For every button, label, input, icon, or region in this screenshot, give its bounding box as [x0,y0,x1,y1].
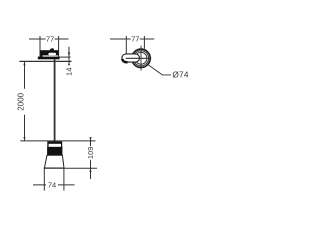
svg-text:Ø74: Ø74 [172,70,188,80]
head neck inner white [49,144,61,147]
svg-text:77: 77 [131,35,139,44]
extension right of 74 [63,168,65,190]
head neck (outlined) [47,141,62,147]
dimension line 14 [68,47,70,64]
tick/extension right of 77 (top view) [143,36,145,49]
ceiling mount fixture (side view) [38,48,60,59]
head cone [44,155,64,168]
head black band [47,147,62,155]
top view: capsule thick lower-left edge [122,59,127,62]
svg-text:77: 77 [46,35,54,44]
arrowhead 109 bottom (points up) [89,168,91,172]
arrowhead 2000 top (points up) [23,62,25,66]
top view: outer circle [132,49,150,67]
svg-text:14: 14 [64,68,73,76]
svg-text:2000: 2000 [16,92,25,110]
svg-text:74: 74 [48,180,56,189]
extension left of 74 [43,168,45,190]
top view: inner circle [135,52,147,64]
bottom reference line (cone bottom) [44,167,97,169]
arrowhead 109 top (points down) [89,137,91,141]
arrowhead 14 upper (points down) [68,53,70,57]
top view: bracket capsule [122,54,140,62]
tick/extension left of 77 (top view) [125,36,127,54]
top reference line at head [20,140,95,142]
svg-text:109: 109 [86,147,95,160]
fixture bottom bar [38,57,60,60]
ceiling line [19,60,71,62]
dimension line 74 [33,184,75,186]
fixture body left foot [40,55,42,57]
dimension line 2000 [24,61,26,141]
arrowhead 2000 bottom (points down) [23,137,25,141]
fixture top plate [40,50,59,51]
arrowhead 14 lower (points up) [68,62,70,65]
fixture tab [50,48,55,50]
dimension 77 (top view) line [110,38,154,40]
fixture body [40,51,58,55]
fixture white notch [48,53,56,56]
top view: crosshair vertical [140,46,142,71]
top view: crosshair horizontal / slot [126,57,152,59]
tick/extension right of 77 (left view) [58,36,60,59]
rod (shower column tube) [54,59,56,142]
tick/extension left of 77 (left view) [39,36,41,57]
leader line to Ø74 [148,65,171,75]
dimension 77 (left view) line [29,38,69,40]
dimension line 109 [90,137,92,179]
top view: middle circle [133,51,148,66]
extension line for 14 top [59,56,71,58]
